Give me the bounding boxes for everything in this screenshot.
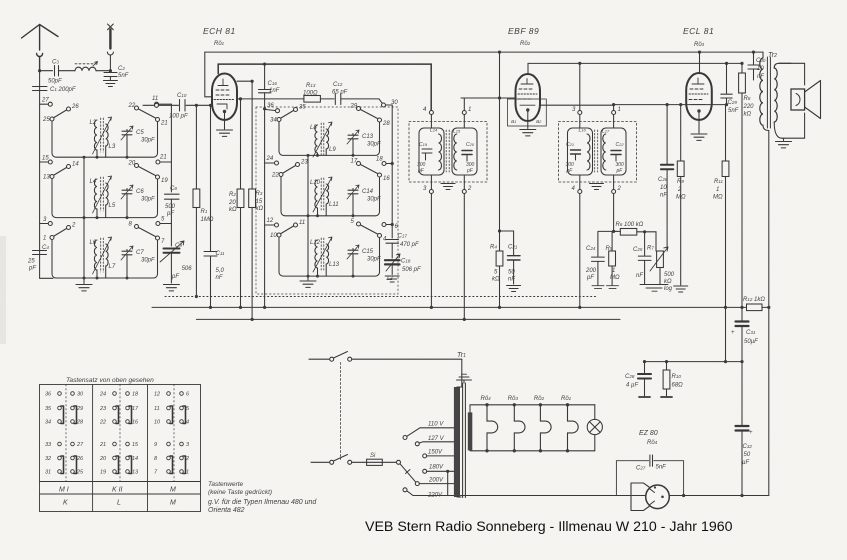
capacitor C32 50uF <box>736 362 754 496</box>
capacitor C2 5nF <box>103 66 128 87</box>
inductor L1 <box>75 62 110 71</box>
ground oscillator rail <box>385 276 399 282</box>
svg-text:28: 28 <box>382 121 390 127</box>
svg-text:M: M <box>170 500 176 507</box>
svg-text:Orienta 482: Orienta 482 <box>208 507 245 514</box>
svg-text:15: 15 <box>42 156 49 162</box>
node 18 <box>376 157 394 166</box>
wire B+ drop to R4 <box>499 52 501 251</box>
svg-text:127 V: 127 V <box>428 436 445 442</box>
capacitor C24 200pF + resistor R5 1MOhm bracket <box>585 230 620 289</box>
node 11 <box>152 96 171 106</box>
svg-text:5,0: 5,0 <box>216 268 225 274</box>
contact 2 (IFT2 bottom) <box>612 186 622 194</box>
svg-text:33: 33 <box>45 442 52 448</box>
svg-text:C13: C13 <box>362 134 374 140</box>
svg-text:L8: L8 <box>310 125 317 131</box>
svg-text:21: 21 <box>159 155 167 161</box>
svg-text:22: 22 <box>128 103 136 109</box>
resistor R6 100kOhm <box>614 222 656 235</box>
capacitor C17 470pF <box>386 234 419 259</box>
svg-text:L12: L12 <box>310 240 321 246</box>
svg-text:1: 1 <box>186 470 189 476</box>
svg-text:180V: 180V <box>429 465 444 471</box>
svg-text:18: 18 <box>376 157 383 163</box>
wire rail A (B+ top) <box>205 51 763 53</box>
svg-text:K: K <box>63 500 68 507</box>
svg-text:27: 27 <box>76 442 84 448</box>
wire IFT1 bottoms down <box>430 194 432 308</box>
svg-text:500: 500 <box>664 272 675 278</box>
svg-text:11: 11 <box>152 96 158 102</box>
wire EBF grid line <box>461 97 516 99</box>
svg-text:2: 2 <box>467 186 472 192</box>
svg-text:50µF: 50µF <box>744 339 758 345</box>
svg-text:25: 25 <box>42 117 50 123</box>
capacitor C27 5nF <box>636 455 666 472</box>
svg-text:50: 50 <box>744 452 751 458</box>
svg-text:Tastenwerte: Tastenwerte <box>208 481 244 488</box>
svg-text:30pF: 30pF <box>367 197 381 203</box>
svg-text:12: 12 <box>154 392 160 398</box>
switch pole top <box>330 352 352 362</box>
svg-text:C6: C6 <box>136 189 144 195</box>
dotted AVC line <box>165 296 598 298</box>
capacitor C4 25pF <box>27 245 49 272</box>
svg-text:nF: nF <box>636 273 643 279</box>
svg-text:10: 10 <box>660 185 667 191</box>
capacitor C16 1nF <box>259 64 280 108</box>
band filter box L8/L9 C13 <box>270 104 390 158</box>
center wire of left boxes <box>83 157 85 283</box>
svg-text:1: 1 <box>43 236 46 242</box>
svg-text:65 pF: 65 pF <box>332 90 348 96</box>
svg-text:L6: L6 <box>90 240 97 246</box>
node 36 <box>266 103 280 113</box>
resistor R8 220kOhm <box>739 62 755 307</box>
svg-text:30pF: 30pF <box>367 142 381 148</box>
svg-text:23: 23 <box>99 406 107 412</box>
band filter box L6/L7 C7 <box>43 222 165 280</box>
svg-text:16: 16 <box>383 176 390 182</box>
tap 110V <box>403 422 454 440</box>
wire diode output <box>540 105 614 110</box>
ground speaker <box>776 142 792 148</box>
svg-text:ECL 81: ECL 81 <box>683 26 714 36</box>
svg-text:MΩ: MΩ <box>676 195 686 201</box>
svg-text:R12 1kΩ: R12 1kΩ <box>743 297 765 303</box>
wire IFT2 bottoms <box>579 194 581 308</box>
tube heater Roe2 <box>534 396 551 452</box>
svg-text:20: 20 <box>128 161 136 167</box>
svg-text:log: log <box>664 286 673 292</box>
wire ECL plate riser <box>699 52 701 73</box>
svg-text:29: 29 <box>350 104 358 110</box>
contact 4 (IFT2 bottom) <box>572 186 582 194</box>
svg-text:13: 13 <box>132 470 139 476</box>
svg-text:200V: 200V <box>428 478 444 484</box>
wire main rail 2 <box>196 318 620 320</box>
capacitor C23 50nF <box>500 231 521 292</box>
wire psu node line <box>645 361 743 363</box>
key switch table <box>40 377 201 512</box>
svg-text:Si: Si <box>370 453 376 459</box>
contact 30 <box>379 99 398 107</box>
svg-text:18: 18 <box>132 392 139 398</box>
svg-text:kΩ: kΩ <box>229 207 237 213</box>
wire main rail 1 <box>152 306 746 308</box>
tap 180V <box>423 465 454 496</box>
svg-text:4 µF: 4 µF <box>626 383 638 389</box>
svg-text:pF: pF <box>586 275 594 281</box>
contact 3 (IFT1 bottom) <box>423 186 433 194</box>
transformer Tr2 <box>760 52 777 496</box>
resistor R1 1MOhm <box>193 105 214 296</box>
svg-text:36: 36 <box>267 103 274 109</box>
svg-text:L5: L5 <box>109 203 116 209</box>
svg-text:2: 2 <box>677 187 682 193</box>
tap 150V <box>423 450 454 458</box>
wire grid input <box>143 104 154 106</box>
svg-text:32: 32 <box>45 456 51 462</box>
node 6 <box>382 223 399 231</box>
svg-text:15: 15 <box>132 442 139 448</box>
svg-text:20: 20 <box>228 200 236 206</box>
svg-text:(keine Taste gedrückt): (keine Taste gedrückt) <box>208 489 272 496</box>
EBF89 diode box a1 a2 <box>508 99 547 126</box>
tap 200V <box>415 478 454 486</box>
svg-text:500: 500 <box>165 204 176 210</box>
svg-text:pF: pF <box>466 168 474 174</box>
svg-text:kΩ: kΩ <box>492 277 500 283</box>
Tr1 heater winding <box>468 412 473 450</box>
svg-text:12: 12 <box>267 218 274 224</box>
svg-text:Tr2: Tr2 <box>768 52 777 59</box>
wire AF grid line <box>614 104 726 106</box>
svg-text:23: 23 <box>300 160 308 166</box>
wire mains top <box>309 358 330 360</box>
contact 3 (IFT2) <box>572 107 582 115</box>
op tube ECL81 <box>686 73 712 120</box>
svg-text:19: 19 <box>100 470 106 476</box>
svg-text:C5: C5 <box>136 130 144 136</box>
resistor R9 2MOhm <box>674 105 688 292</box>
svg-text:ECH 81: ECH 81 <box>203 26 236 36</box>
node 5 <box>156 217 172 226</box>
svg-text:pF: pF <box>171 274 179 280</box>
oscillator coil box L12/L13 C15 <box>270 219 387 278</box>
capacitor C8 500pF <box>165 186 180 246</box>
svg-text:11: 11 <box>299 220 305 226</box>
svg-text:Tr1: Tr1 <box>457 352 466 359</box>
resistor R13 100Ohm <box>303 83 334 102</box>
svg-text:pF: pF <box>417 168 425 174</box>
svg-text:21: 21 <box>160 121 168 127</box>
wire <box>40 70 53 72</box>
resistor R11 1MOhm <box>713 105 729 362</box>
svg-text:110 V: 110 V <box>428 422 444 428</box>
Tr2 secondary <box>774 63 791 138</box>
switch pole bottom <box>330 455 352 465</box>
svg-text:200: 200 <box>585 268 597 274</box>
svg-text:L7: L7 <box>109 264 116 270</box>
svg-text:2: 2 <box>617 186 622 192</box>
svg-text:100 pF: 100 pF <box>169 114 188 120</box>
contact 1 (IFT1) <box>462 98 471 115</box>
junction R1 top <box>195 104 198 107</box>
svg-text:L2: L2 <box>90 120 97 126</box>
svg-text:34: 34 <box>45 420 51 426</box>
svg-text:25: 25 <box>27 259 35 265</box>
svg-text:MΩ: MΩ <box>610 275 620 281</box>
svg-text:L9: L9 <box>329 147 336 153</box>
svg-text:506 pF: 506 pF <box>402 267 421 273</box>
svg-text:pF: pF <box>28 266 36 272</box>
wire screen tap <box>237 80 252 82</box>
svg-text:1nF: 1nF <box>269 88 280 94</box>
ground ECH81 cathode <box>224 113 226 129</box>
contact 2 (IFT1 bottom) <box>462 186 472 194</box>
wire screen rail ECL <box>528 62 726 64</box>
svg-text:14: 14 <box>132 456 138 462</box>
svg-text:34: 34 <box>270 118 277 124</box>
contact 4 (IFT1) <box>423 107 433 115</box>
svg-text:5nF: 5nF <box>118 73 129 79</box>
IFT2 resonant loop right L17 C22 <box>601 115 626 190</box>
wire rectifier output <box>669 495 769 497</box>
node L1/C2 <box>109 69 112 72</box>
junction dots top rails <box>263 51 755 66</box>
svg-text:9: 9 <box>154 442 157 448</box>
svg-text:L4: L4 <box>90 179 97 185</box>
wire EBF plate riser <box>528 63 580 110</box>
dashed enclosure middle column <box>256 107 398 294</box>
wire rail A left drop to grid <box>205 52 213 97</box>
svg-text:EZ 80: EZ 80 <box>639 430 658 437</box>
node 24 <box>265 156 279 165</box>
capacitor C30 10nF <box>748 52 766 80</box>
op tube ECH81 <box>212 74 237 121</box>
tube heater Roe4 <box>481 396 498 452</box>
ground tuning rail <box>163 285 179 291</box>
svg-text:R6 100 kΩ: R6 100 kΩ <box>616 222 644 228</box>
ground C25 R7 <box>640 285 668 292</box>
svg-text:C14: C14 <box>362 189 374 195</box>
svg-text:1: 1 <box>612 268 615 274</box>
svg-text:31: 31 <box>45 470 51 476</box>
svg-text:470 pF: 470 pF <box>400 242 419 248</box>
svg-text:14: 14 <box>72 162 79 168</box>
svg-text:C1 200pF: C1 200pF <box>50 87 76 93</box>
svg-text:30: 30 <box>77 392 84 398</box>
IF transformer 1 dashed box <box>409 122 487 183</box>
wire HT secondary <box>461 495 647 497</box>
IFT2 core <box>595 130 598 172</box>
IFT1 core <box>446 130 449 172</box>
band filter box L2/L3 C5 <box>42 103 168 159</box>
node 27 <box>40 98 53 107</box>
antenna <box>22 25 59 71</box>
contact 1 (IFT2) <box>612 107 621 115</box>
middle column left rail <box>264 109 266 308</box>
op tube EBF89 <box>516 74 541 121</box>
capacitor C11 5nF <box>204 105 225 307</box>
node 12 <box>265 218 279 227</box>
svg-text:MΩ: MΩ <box>713 195 723 201</box>
ground middle boxes <box>300 281 316 287</box>
IF transformer 2 dashed box <box>559 122 637 183</box>
svg-text:5nF: 5nF <box>728 108 739 114</box>
svg-text:4: 4 <box>186 420 189 426</box>
resistor R3 15kOhm <box>249 81 264 319</box>
capacitor C3 50pF <box>48 60 75 85</box>
capacitor C31 50uF <box>731 307 758 361</box>
svg-text:EBF 89: EBF 89 <box>508 26 539 36</box>
svg-text:35: 35 <box>45 406 52 412</box>
svg-text:1: 1 <box>618 107 621 113</box>
svg-text:g.V. für die Typen Ilmenau 480: g.V. für die Typen Ilmenau 480 und <box>208 499 317 506</box>
svg-text:27: 27 <box>41 98 49 104</box>
capacitor C12 65pF <box>332 82 379 105</box>
svg-text:30pF: 30pF <box>141 258 155 264</box>
potentiometer R7 500k log <box>647 232 675 292</box>
wire mains bottom <box>311 461 330 463</box>
svg-text:26: 26 <box>71 104 79 110</box>
svg-text:kΩ: kΩ <box>256 206 264 212</box>
wire rail B (screen) <box>218 64 431 110</box>
svg-text:L3: L3 <box>109 144 116 150</box>
svg-text:15: 15 <box>256 199 263 205</box>
switch linkage dashed <box>340 363 342 460</box>
svg-text:50: 50 <box>508 270 515 276</box>
svg-text:10: 10 <box>270 233 277 239</box>
node 15 <box>40 156 53 165</box>
ground EBF89 <box>527 112 529 129</box>
capacitor C1 200pF <box>33 87 76 94</box>
svg-text:+: + <box>749 430 753 436</box>
svg-text:13: 13 <box>43 175 50 181</box>
variable capacitor C9 506pF <box>160 241 192 283</box>
svg-text:K II: K II <box>112 487 123 494</box>
svg-text:220: 220 <box>743 104 755 110</box>
svg-text:35: 35 <box>299 105 306 111</box>
ground IFT1 <box>441 184 455 190</box>
capacitor C29 5nF <box>721 63 739 114</box>
svg-text:kΩ: kΩ <box>744 112 752 118</box>
ground ECL81 <box>698 113 700 134</box>
svg-text:10: 10 <box>154 420 161 426</box>
svg-text:+: + <box>731 330 735 336</box>
center wire of middle boxes <box>307 155 309 280</box>
svg-text:19: 19 <box>161 178 168 184</box>
svg-text:220V: 220V <box>427 493 443 499</box>
svg-text:VEB Stern Radio Sonneberg - Il: VEB Stern Radio Sonneberg - Illmenau W 2… <box>365 519 733 535</box>
svg-text:17: 17 <box>351 159 358 165</box>
svg-text:1: 1 <box>716 187 719 193</box>
tuning gang rail <box>170 104 172 192</box>
contact 11b <box>155 103 159 107</box>
svg-text:1: 1 <box>468 107 471 113</box>
transformer Tr1 primary <box>454 387 460 497</box>
svg-text:L13: L13 <box>329 262 340 268</box>
svg-text:M I: M I <box>59 487 69 494</box>
svg-text:C7: C7 <box>136 250 144 256</box>
svg-text:L10: L10 <box>310 180 321 186</box>
ground IFT2 <box>590 184 604 190</box>
resistor R12 1kOhm <box>743 297 770 311</box>
svg-text:21: 21 <box>99 442 106 448</box>
svg-text:2: 2 <box>71 223 76 229</box>
Tr1 core <box>463 383 466 498</box>
svg-text:nF: nF <box>216 275 223 281</box>
voltage selector arm <box>397 460 416 482</box>
svg-text:Tastensatz von oben gesehen: Tastensatz von oben gesehen <box>66 377 154 384</box>
svg-text:50pF: 50pF <box>48 79 62 85</box>
node 3 <box>40 217 53 226</box>
svg-text:5nF: 5nF <box>656 465 667 471</box>
svg-text:30pF: 30pF <box>141 197 155 203</box>
svg-text:68Ω: 68Ω <box>672 383 684 389</box>
svg-text:pF: pF <box>566 168 574 174</box>
svg-text:22: 22 <box>271 173 279 179</box>
capacitor C25 nF <box>633 230 651 284</box>
svg-text:L11: L11 <box>329 202 339 208</box>
capacitor C26 10nF <box>658 105 673 247</box>
svg-text:30pF: 30pF <box>367 257 381 263</box>
svg-text:L: L <box>117 500 121 507</box>
ground Tr1 core <box>463 381 465 384</box>
resistor R10 68Ohm <box>661 362 683 397</box>
resistor R2 20kOhm <box>228 99 244 308</box>
svg-text:pF: pF <box>166 211 174 217</box>
ground left boxes <box>76 285 92 291</box>
variable capacitor C18 506pF <box>385 254 421 282</box>
svg-text:1MΩ: 1MΩ <box>201 217 214 223</box>
svg-text:16: 16 <box>132 420 139 426</box>
tap 220V <box>403 488 454 499</box>
IFT1 resonant loop left L14 C19 <box>417 115 444 190</box>
capacitor C28 4uF <box>625 362 651 397</box>
left antenna rail wire <box>40 71 53 279</box>
svg-text:36: 36 <box>45 392 52 398</box>
wire anode R13 line <box>237 98 304 100</box>
svg-text:24: 24 <box>99 392 106 398</box>
IFT2 resonant loop left C21 L16 <box>566 115 593 190</box>
table note text <box>208 481 317 514</box>
FM antenna stub <box>107 24 113 71</box>
node 30 rail <box>386 105 393 238</box>
svg-text:C15: C15 <box>362 249 374 255</box>
rectifier EZ80 symbol <box>631 483 669 511</box>
svg-text:30pF: 30pF <box>141 138 155 144</box>
tube heater Roe3 <box>508 396 525 452</box>
node 21 <box>156 155 172 165</box>
tap 127V <box>415 436 454 446</box>
pilot lamp <box>587 405 602 451</box>
svg-text:100Ω: 100Ω <box>303 91 318 97</box>
IFT1 resonant loop right L15 C20 <box>452 115 477 190</box>
svg-text:nF: nF <box>508 277 515 283</box>
svg-text:M: M <box>170 487 176 494</box>
svg-text:24: 24 <box>266 156 274 162</box>
svg-text:150V: 150V <box>428 450 443 456</box>
capacitor C10 100pF <box>159 93 213 120</box>
svg-text:nF: nF <box>660 193 667 199</box>
svg-text:pF: pF <box>616 168 624 174</box>
node junction antenna <box>38 69 41 72</box>
svg-text:17: 17 <box>132 406 139 412</box>
tube heater Roe1 <box>561 396 578 452</box>
